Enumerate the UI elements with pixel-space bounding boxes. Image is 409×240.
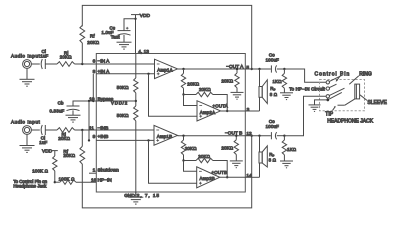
svg-text:20KΩ: 20KΩ	[198, 154, 210, 159]
svg-text:Cb: Cb	[58, 100, 64, 105]
plug barrel	[355, 84, 360, 99]
wire Ci to Ri A	[45, 63, 57, 65]
svg-text:HEADPHONE JACK: HEADPHONE JACK	[327, 118, 374, 124]
wire Amp1B out to 20K	[183, 136, 185, 140]
wire 100K to junction	[54, 171, 56, 182]
svg-text:1: 1	[93, 167, 96, 173]
speaker RL B	[259, 136, 267, 178]
headphone jack dashed outline	[320, 80, 365, 111]
pin 10 Bypass wire	[96, 100, 136, 102]
wire 1K node B to jack corner	[284, 96, 326, 135]
svg-text:20KΩ: 20KΩ	[221, 145, 233, 150]
node feedback B to -OUT B	[251, 135, 253, 137]
wire -OUT A to 20K gnd	[236, 69, 238, 73]
wire node A2 to 20K h	[184, 94, 197, 96]
wire +IN A down to bypass	[92, 74, 94, 101]
pointer RING	[349, 76, 359, 85]
resistor Rf (channel A feedback)	[80, 25, 85, 43]
wire node B2 to Amp2B minus	[184, 161, 197, 172]
jack contact hp sense (C2)	[326, 87, 329, 90]
node VDD junction	[134, 18, 136, 20]
arrow TIP	[333, 106, 336, 111]
svg-text:0.33uF: 0.33uF	[50, 108, 65, 113]
node Amp1B out	[182, 135, 184, 137]
svg-text:Shutdown: Shutdown	[98, 167, 120, 173]
wire +IN B to Amp2B plus	[149, 140, 197, 183]
svg-text:20KΩ: 20KΩ	[87, 40, 99, 45]
pin 1 Shutdown stub	[89, 172, 96, 174]
wire jack A to Ci	[31, 63, 39, 65]
svg-text:Audio Input: Audio Input	[11, 54, 40, 59]
ground (Cb)	[66, 115, 81, 122]
svg-text:GND: GND	[124, 193, 135, 199]
capacitor Co A	[271, 65, 276, 72]
node Amp1A out	[182, 68, 184, 70]
wire 1K B to ground	[283, 155, 285, 161]
wire 20K gnd A to ground	[236, 88, 238, 93]
wire 20K h to Amp2B out	[213, 161, 227, 178]
wire jack B to Ci	[31, 129, 39, 131]
resistor 1K B	[282, 140, 286, 155]
resistor 1K A	[282, 73, 286, 88]
wire Cb to bypass	[73, 101, 96, 106]
svg-text:4, 13: 4, 13	[138, 49, 149, 55]
svg-text:TIP: TIP	[325, 111, 333, 117]
svg-text:+INB: +INB	[98, 134, 109, 140]
wire 20K h to Amp2A out	[213, 95, 227, 112]
svg-text:1KΩ: 1KΩ	[273, 79, 283, 84]
svg-text:Rₚ: Rₚ	[270, 86, 275, 91]
wire 20K to node A2	[183, 88, 185, 94]
wire Amp1B output to -OUT B pin	[178, 135, 246, 137]
node +IN A	[147, 73, 149, 75]
svg-text:−INB: −INB	[98, 125, 109, 131]
wire VDD to Cs	[124, 19, 136, 31]
ground (20K B)	[230, 161, 243, 168]
resistor Ri (channel A)	[57, 62, 75, 67]
svg-text:+IN A: +IN A	[98, 69, 111, 75]
wire Rf A to top rail	[82, 5, 251, 69]
node -OUT B speaker	[258, 135, 260, 137]
pin 6 -IN A wire	[96, 63, 154, 65]
svg-text:5: 5	[246, 65, 249, 71]
svg-text:Control Pin: Control Pin	[315, 71, 351, 77]
speaker RL A	[259, 69, 267, 111]
wire node B2 to 20K h	[184, 160, 197, 162]
node +IN B amp2	[147, 139, 149, 141]
node A2 minus	[182, 93, 184, 95]
lever C2	[329, 84, 336, 87]
wire jack A to ground	[26, 68, 28, 79]
capacitor Ci (channel B)	[41, 125, 45, 135]
svg-text:Amp1A: Amp1A	[157, 67, 172, 72]
svg-text:VDD: VDD	[140, 13, 151, 19]
audio input jack J2 (channel B)	[23, 126, 32, 135]
audio input jack J1 (channel A)	[23, 60, 32, 69]
resistor 100K vertical	[53, 156, 57, 171]
wire Amp2A out to pin 3	[221, 110, 246, 112]
ground (input jack B)	[20, 146, 35, 153]
capacitor Co B	[271, 132, 276, 139]
node -OUT A speaker	[258, 68, 260, 70]
svg-text:+OUTB: +OUTB	[212, 170, 228, 175]
wire node to 1K B	[283, 136, 285, 140]
node VDD/2	[135, 100, 137, 102]
wire Ri to pin 6	[75, 63, 97, 65]
svg-text:16: 16	[91, 177, 97, 183]
svg-text:8 Ω: 8 Ω	[269, 158, 277, 163]
svg-text:20KΩ: 20KΩ	[63, 153, 75, 158]
svg-text:−OUT A: −OUT A	[226, 64, 244, 70]
node shutdown divider	[54, 181, 56, 183]
svg-text:50KΩ: 50KΩ	[117, 85, 129, 90]
wire bypass down to +IN B	[88, 101, 90, 140]
wire node A2 to Amp2A minus	[184, 95, 198, 106]
node 20K gnd A	[236, 68, 238, 70]
svg-text:SLEEVE: SLEEVE	[367, 100, 387, 106]
node feedback A to -OUT A	[251, 68, 253, 70]
ground (1K A)	[280, 93, 293, 100]
svg-text:Amp2A: Amp2A	[200, 110, 215, 115]
node 1K B	[283, 135, 285, 137]
resistor 100K horizontal	[60, 180, 76, 184]
svg-text:VDD: VDD	[42, 149, 53, 155]
resistor 20K to gnd B	[234, 140, 238, 155]
pointer SLEEVE	[360, 95, 367, 101]
GND pin wire	[135, 192, 137, 197]
svg-text:−IN A: −IN A	[98, 59, 111, 65]
wire 50K to bypass node	[135, 93, 137, 106]
svg-text:RING: RING	[359, 71, 372, 77]
ground (20K A)	[231, 92, 244, 99]
svg-text:14: 14	[246, 173, 252, 179]
jack contact sleeve (C4)	[326, 99, 329, 102]
svg-text:20KΩ: 20KΩ	[187, 82, 199, 87]
wire Ri B to pin 11	[75, 129, 97, 131]
svg-text:Rf: Rf	[90, 33, 95, 38]
svg-text:1uF: 1uF	[40, 53, 48, 58]
svg-text:100K Ω: 100K Ω	[59, 176, 75, 181]
svg-text:6: 6	[93, 59, 96, 65]
wire -OUT B to 20K gnd	[235, 136, 237, 140]
wire Rf B to bottom rail	[82, 136, 251, 208]
node -IN A	[81, 63, 83, 65]
wire pin 14 to speaker B	[245, 176, 259, 178]
wire Cs to ground	[123, 35, 125, 42]
op-amp Amp1B	[154, 125, 178, 145]
svg-text:20KΩ: 20KΩ	[58, 136, 70, 141]
jack contact tip drive (C3)	[326, 95, 329, 98]
arrow To HP-IN into C2	[324, 88, 326, 90]
wire -OUT A pin to Co A	[245, 68, 271, 70]
wire divider to GND pin	[135, 121, 137, 197]
arrow control pin	[336, 76, 340, 82]
lever C4	[329, 92, 342, 99]
svg-text:11: 11	[89, 125, 94, 131]
svg-text:100K Ω: 100K Ω	[32, 169, 48, 174]
wire Cb to ground	[72, 110, 74, 115]
svg-text:1uF: 1uF	[39, 140, 47, 145]
resistor 20K feedback B vertical	[181, 140, 185, 155]
resistor 20K to gnd A	[235, 73, 239, 88]
wire VDD chain upper	[135, 54, 137, 79]
node bypass +INA junction	[92, 100, 94, 102]
plug tip cone	[338, 99, 355, 105]
ground (input jack A)	[20, 79, 35, 86]
resistor 20K gain B horizontal	[196, 158, 213, 162]
svg-text:20KΩ: 20KΩ	[185, 146, 197, 151]
svg-text:Tant: Tant	[111, 34, 121, 39]
wire +IN A to Amp2A plus	[149, 74, 198, 116]
op-amp Amp2A	[197, 101, 221, 121]
jack contact ring (C1)	[326, 81, 329, 84]
svg-text:9: 9	[93, 134, 96, 140]
pin 11 -IN B wire	[96, 129, 154, 131]
wire Co A to 1K node	[277, 68, 285, 70]
op-amp Amp2B	[197, 167, 220, 188]
svg-text:Headphone Jack: Headphone Jack	[13, 184, 47, 189]
wire -OUT B pin to Co B	[245, 135, 271, 137]
pin 9 +IN B wire	[96, 139, 154, 141]
capacitor Cb	[67, 106, 80, 111]
node B2 minus	[182, 159, 184, 161]
node 20K gnd B	[235, 135, 237, 137]
power VDD symbol	[131, 15, 140, 54]
ground (GND pin)	[128, 197, 143, 204]
node Amp2B out fb	[226, 176, 228, 178]
wire Amp2B out to pin 14	[220, 176, 246, 178]
wire 20K B to node B2	[183, 155, 185, 161]
ground (jack sleeve)	[309, 105, 321, 112]
lever C3	[329, 88, 344, 95]
svg-text:Rₚ: Rₚ	[269, 152, 274, 157]
node 1K A	[283, 68, 285, 70]
wire Amp1A out to 20K	[183, 69, 185, 73]
ground (Cs)	[117, 42, 132, 49]
op-amp Amp1A	[155, 59, 178, 78]
wire jack B to ground	[26, 134, 28, 145]
shutdown pull-up VDD symbol	[52, 151, 58, 156]
wire Co B to 1K node	[277, 135, 285, 137]
resistor Rf (channel B feedback)	[80, 146, 85, 164]
lever C1	[329, 75, 343, 82]
wire 20K gnd B to ground	[235, 155, 237, 161]
svg-text:20KΩ: 20KΩ	[221, 79, 233, 84]
svg-text:12: 12	[246, 131, 252, 137]
svg-text:HP−IN: HP−IN	[98, 177, 113, 183]
pin 8 +IN A wire	[96, 73, 154, 75]
svg-text:−OUT B: −OUT B	[225, 130, 242, 136]
wire 1K A to ground	[283, 88, 285, 93]
wire sleeve to ground	[315, 100, 327, 105]
IC boundary U1	[96, 54, 245, 193]
wire pin 3 to speaker A	[245, 110, 259, 112]
resistor Ri (channel B)	[57, 128, 75, 133]
svg-text:To HP−IN Circuit: To HP−IN Circuit	[289, 86, 325, 91]
resistor 20K feedback A vertical	[181, 73, 185, 88]
svg-text:50KΩ: 50KΩ	[117, 113, 129, 118]
wire Amp1A output to -OUT A pin	[178, 68, 246, 70]
svg-text:Amp1B: Amp1B	[157, 134, 172, 139]
svg-text:20KΩ: 20KΩ	[60, 55, 72, 60]
svg-text:2, 7, 15: 2, 7, 15	[137, 193, 160, 199]
wire 1K node to jack corner	[284, 69, 326, 82]
wire node to 1K A	[283, 69, 285, 73]
wire 100K h to HP-IN pin	[76, 181, 96, 183]
svg-text:20KΩ: 20KΩ	[199, 87, 211, 92]
wire Ci B to Ri B	[45, 129, 57, 131]
node bypass-cb junction	[88, 100, 90, 102]
resistor 20K gain A horizontal	[196, 92, 213, 96]
svg-text:1KΩ: 1KΩ	[287, 147, 297, 152]
capacitor Ci (channel A)	[41, 59, 45, 69]
svg-text:Amp2B: Amp2B	[200, 176, 215, 181]
svg-text:3: 3	[247, 107, 250, 113]
svg-text:Audio Input: Audio Input	[11, 119, 40, 124]
svg-text:+OUTA: +OUTA	[213, 103, 228, 108]
ground (1K B)	[280, 161, 293, 168]
resistor 50K upper (VDD/2 divider)	[134, 78, 138, 93]
plus mark Cs	[126, 27, 129, 30]
svg-text:8 Ω: 8 Ω	[270, 92, 278, 97]
wire node to 100K h	[55, 181, 60, 183]
resistor 50K lower (VDD/2 divider)	[134, 106, 138, 121]
svg-text:100uF: 100uF	[266, 58, 280, 63]
svg-text:100uF: 100uF	[266, 124, 280, 129]
wire -IN B down to Rf B	[81, 130, 83, 146]
wire -IN A up to Rf A	[81, 43, 83, 64]
svg-text:VDD/2: VDD/2	[111, 101, 128, 106]
node +IN B tie	[88, 139, 90, 141]
node -IN B	[81, 129, 83, 131]
capacitor Cs	[118, 31, 131, 36]
node Amp2A out fb	[226, 110, 228, 112]
